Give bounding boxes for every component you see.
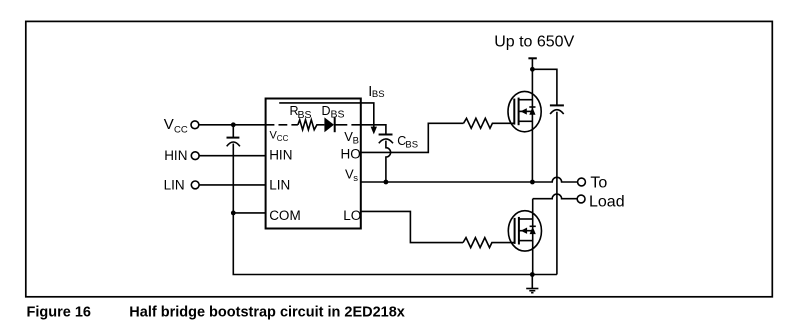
svg-text:BS: BS xyxy=(298,109,312,121)
svg-text:HO: HO xyxy=(341,146,361,161)
svg-text:LIN: LIN xyxy=(269,177,290,192)
svg-text:To: To xyxy=(590,175,607,192)
svg-text:D: D xyxy=(322,104,331,118)
svg-text:HIN: HIN xyxy=(269,148,292,163)
svg-text:Load: Load xyxy=(589,193,625,210)
svg-text:BS: BS xyxy=(372,89,385,100)
svg-text:Up to 650V: Up to 650V xyxy=(494,33,574,50)
svg-text:HIN: HIN xyxy=(164,148,187,163)
svg-text:Figure 16: Figure 16 xyxy=(27,305,91,321)
svg-text:CC: CC xyxy=(174,124,188,135)
svg-text:BS: BS xyxy=(405,139,418,150)
svg-text:V: V xyxy=(164,116,174,133)
svg-text:Half bridge bootstrap circuit: Half bridge bootstrap circuit in 2ED218x xyxy=(129,305,405,321)
svg-text:COM: COM xyxy=(269,208,301,223)
svg-text:LIN: LIN xyxy=(164,177,185,192)
svg-text:B: B xyxy=(353,135,359,146)
svg-text:LO: LO xyxy=(343,208,361,223)
svg-text:s: s xyxy=(353,173,358,184)
svg-text:CC: CC xyxy=(277,134,289,143)
svg-text:BS: BS xyxy=(331,108,345,120)
